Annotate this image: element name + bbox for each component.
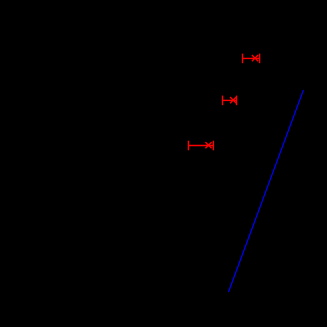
blue fit line xyxy=(229,90,304,291)
error bar point 3 xyxy=(188,141,213,151)
error bar point 2 xyxy=(223,96,237,106)
error bar point 1 xyxy=(243,54,260,64)
